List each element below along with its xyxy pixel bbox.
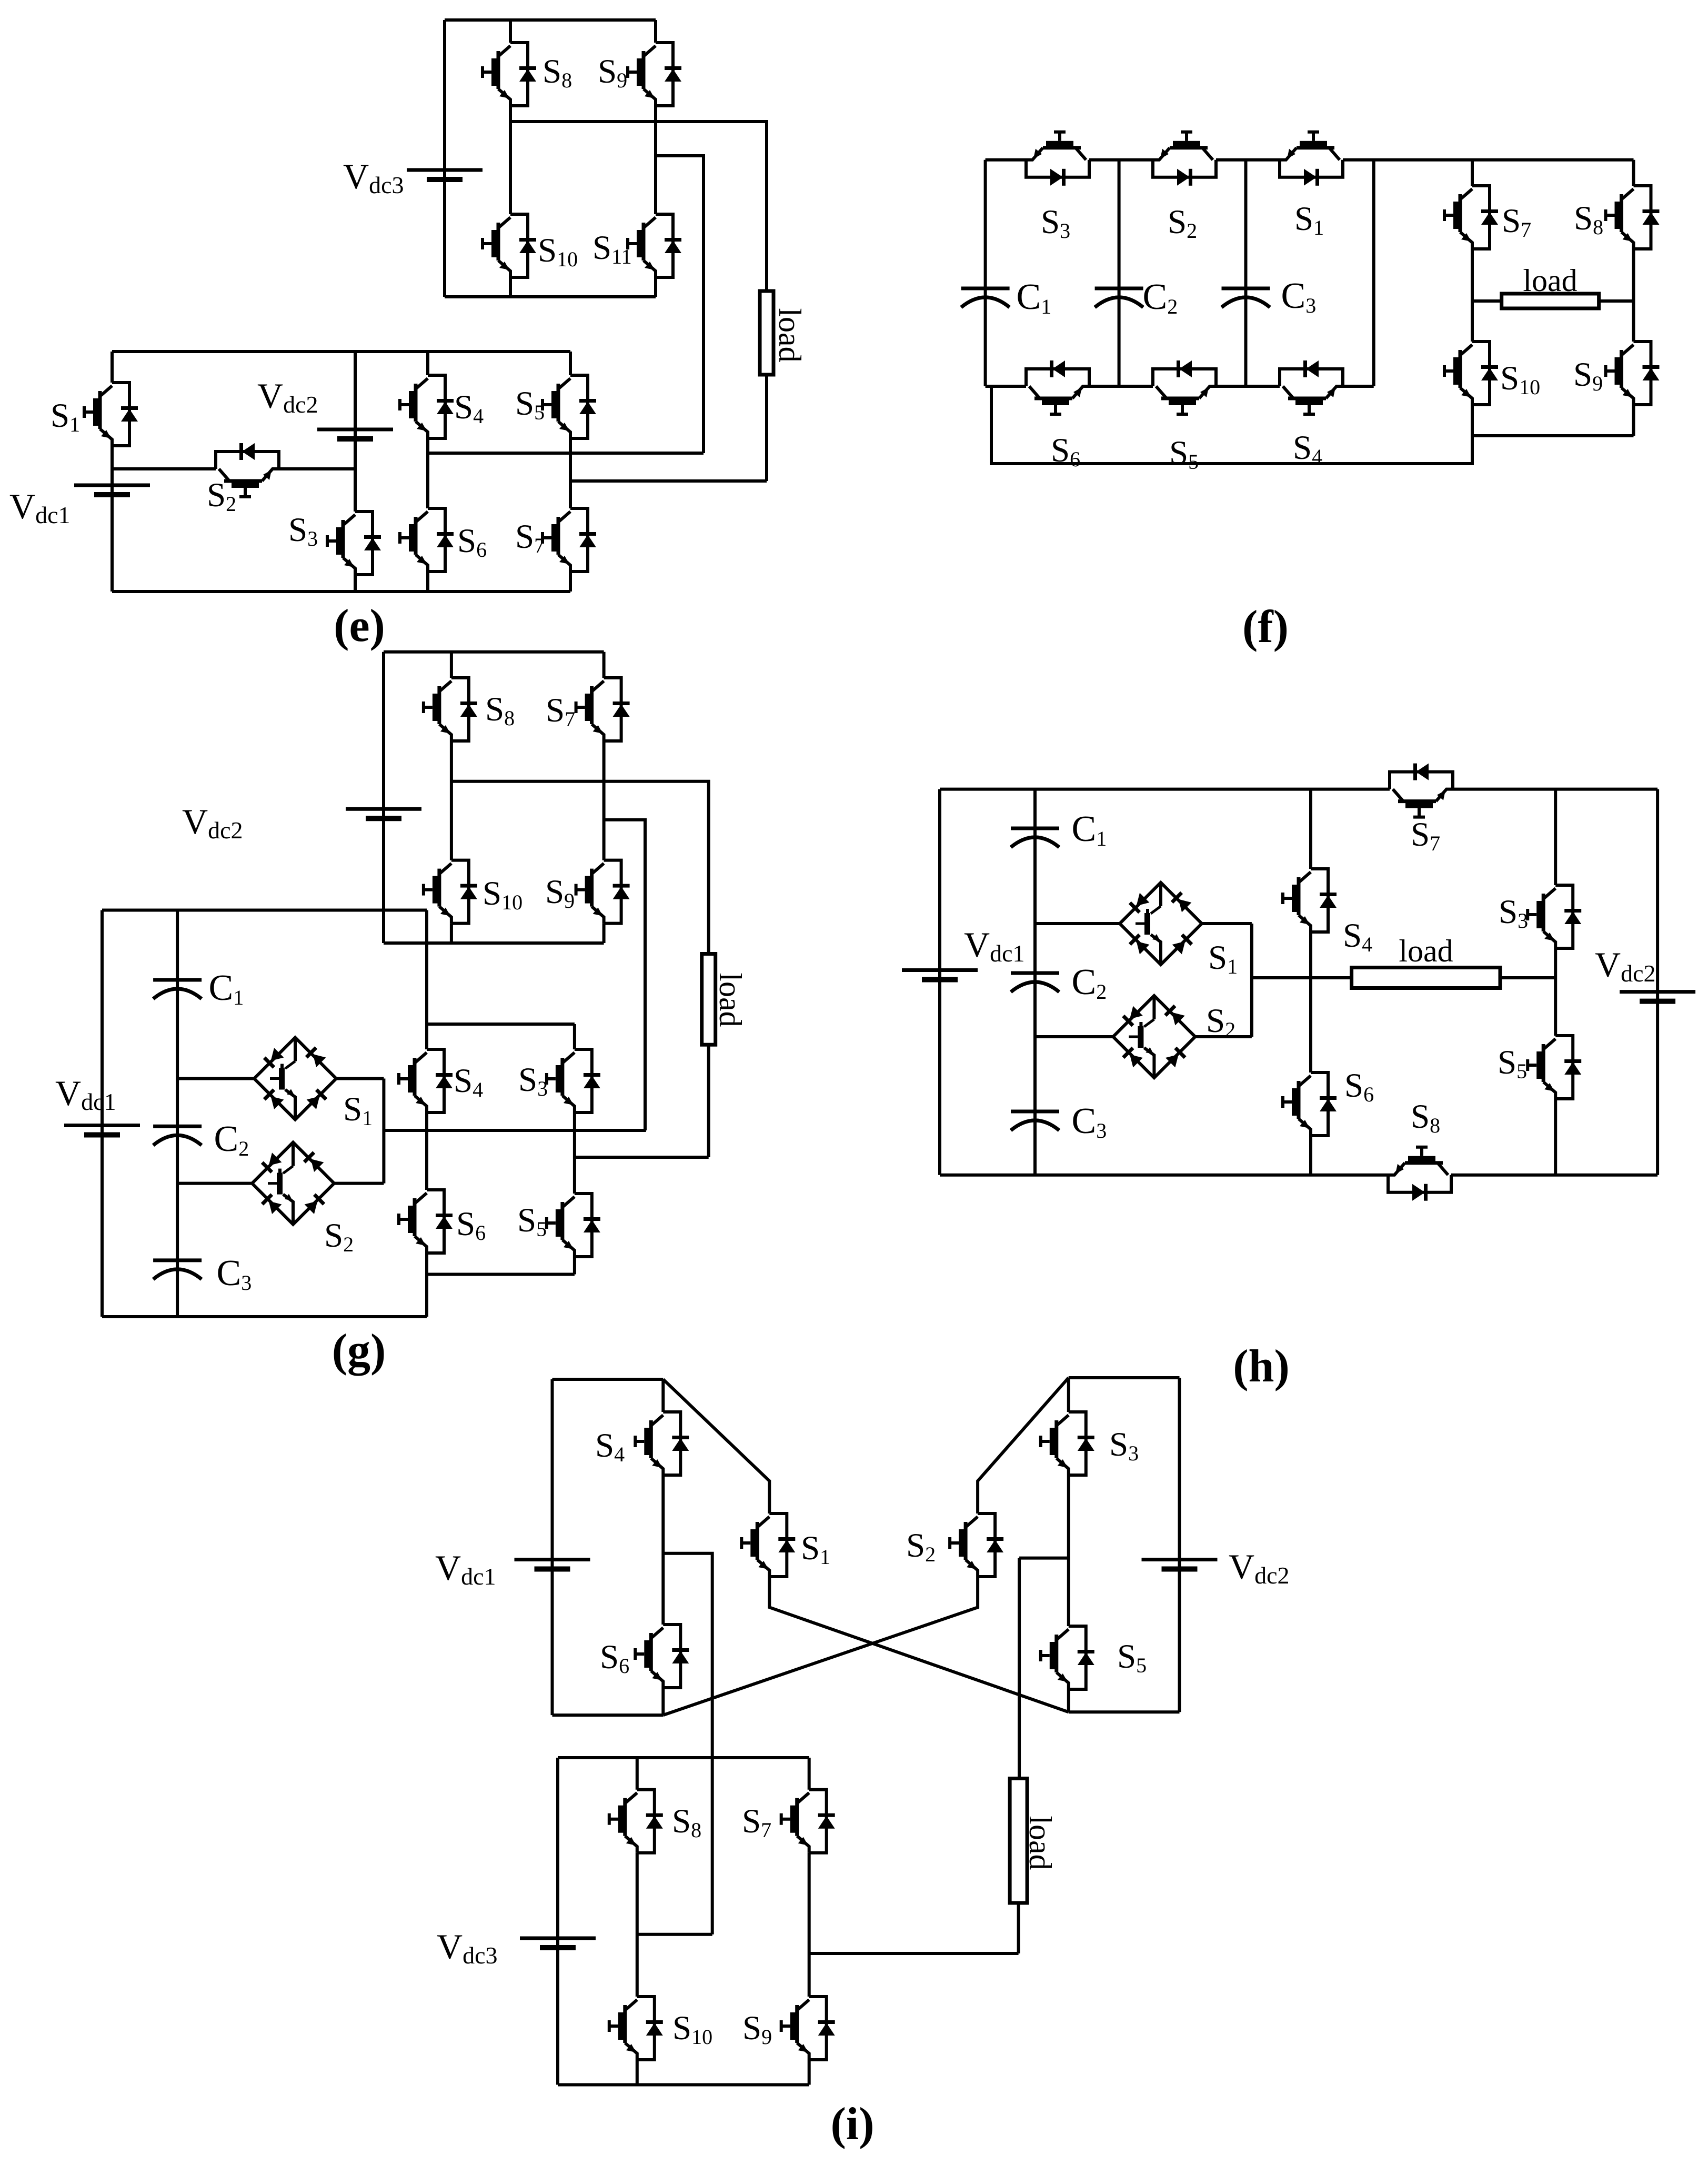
svg-text:S5: S5 [1169, 434, 1199, 474]
svg-text:(g): (g) [332, 1325, 386, 1376]
svg-text:S10: S10 [672, 2009, 712, 2049]
svg-text:S3: S3 [1499, 893, 1528, 933]
svg-text:load: load [772, 308, 807, 362]
svg-text:C2: C2 [1143, 277, 1178, 318]
svg-text:S9: S9 [742, 2009, 772, 2049]
svg-text:S8: S8 [672, 1802, 701, 1842]
svg-text:S8: S8 [1574, 199, 1603, 239]
svg-text:Vdc2: Vdc2 [1595, 945, 1656, 987]
svg-text:S6: S6 [456, 1205, 486, 1245]
svg-text:C1: C1 [1017, 277, 1052, 318]
svg-text:Vdc2: Vdc2 [1229, 1547, 1290, 1589]
svg-text:C1: C1 [209, 968, 244, 1009]
svg-text:S7: S7 [515, 518, 545, 557]
svg-text:Vdc3: Vdc3 [343, 156, 404, 198]
svg-text:S4: S4 [1343, 917, 1372, 956]
svg-text:S9: S9 [545, 873, 575, 913]
svg-text:C3: C3 [1072, 1101, 1107, 1142]
svg-text:C3: C3 [1281, 276, 1317, 317]
svg-text:S1: S1 [801, 1529, 830, 1569]
svg-text:S2: S2 [1168, 203, 1197, 243]
svg-text:S7: S7 [1502, 202, 1531, 242]
svg-text:S4: S4 [454, 1062, 483, 1101]
svg-text:Vdc1: Vdc1 [55, 1073, 116, 1115]
svg-text:S6: S6 [600, 1638, 629, 1678]
svg-text:S7: S7 [546, 691, 575, 731]
svg-text:load: load [1523, 263, 1577, 298]
svg-text:S4: S4 [595, 1427, 625, 1466]
svg-text:S1: S1 [343, 1090, 373, 1130]
svg-text:S8: S8 [485, 690, 515, 730]
svg-text:S11: S11 [592, 229, 632, 268]
svg-text:C2: C2 [214, 1119, 249, 1160]
svg-text:S3: S3 [288, 511, 318, 550]
svg-text:Vdc1: Vdc1 [435, 1548, 496, 1590]
svg-text:Vdc1: Vdc1 [964, 925, 1025, 967]
svg-text:(h): (h) [1233, 1341, 1290, 1392]
svg-text:S2: S2 [906, 1527, 936, 1566]
svg-text:S5: S5 [515, 385, 545, 424]
svg-text:S6: S6 [1344, 1067, 1374, 1106]
svg-text:load: load [1399, 934, 1453, 968]
svg-text:S4: S4 [1293, 429, 1322, 468]
svg-text:S2: S2 [1206, 1002, 1235, 1041]
svg-text:S4: S4 [454, 388, 484, 428]
svg-text:C1: C1 [1072, 809, 1107, 850]
svg-text:S10: S10 [538, 232, 578, 271]
svg-text:(e): (e) [334, 600, 385, 652]
svg-text:S2: S2 [324, 1217, 354, 1256]
svg-text:Vdc1: Vdc1 [9, 486, 71, 528]
svg-text:load: load [1023, 1816, 1058, 1870]
svg-text:S3: S3 [1041, 203, 1070, 243]
svg-text:C3: C3 [217, 1253, 252, 1295]
svg-text:S10: S10 [1500, 359, 1540, 399]
svg-text:S6: S6 [1051, 432, 1080, 471]
svg-text:S5: S5 [517, 1201, 547, 1241]
svg-text:S5: S5 [1498, 1044, 1527, 1083]
svg-text:S3: S3 [518, 1061, 548, 1100]
svg-text:S7: S7 [1411, 816, 1440, 855]
svg-text:Vdc2: Vdc2 [257, 376, 318, 418]
svg-text:S1: S1 [1208, 939, 1238, 978]
svg-text:Vdc3: Vdc3 [437, 1927, 498, 1969]
svg-text:(f): (f) [1242, 602, 1289, 653]
svg-text:S9: S9 [1573, 356, 1603, 395]
svg-text:S1: S1 [51, 397, 80, 436]
svg-text:S8: S8 [542, 53, 572, 92]
svg-text:S8: S8 [1411, 1098, 1440, 1137]
svg-text:S10: S10 [483, 875, 523, 914]
svg-text:Vdc2: Vdc2 [182, 801, 243, 844]
svg-text:S6: S6 [457, 522, 487, 562]
svg-text:S5: S5 [1117, 1638, 1147, 1677]
svg-text:S3: S3 [1109, 1426, 1139, 1465]
svg-text:S1: S1 [1294, 200, 1324, 239]
svg-text:S7: S7 [742, 1802, 771, 1842]
svg-text:load: load [713, 973, 748, 1027]
svg-text:(i): (i) [830, 2099, 874, 2150]
svg-text:S9: S9 [598, 53, 627, 92]
svg-text:C2: C2 [1072, 962, 1107, 1004]
